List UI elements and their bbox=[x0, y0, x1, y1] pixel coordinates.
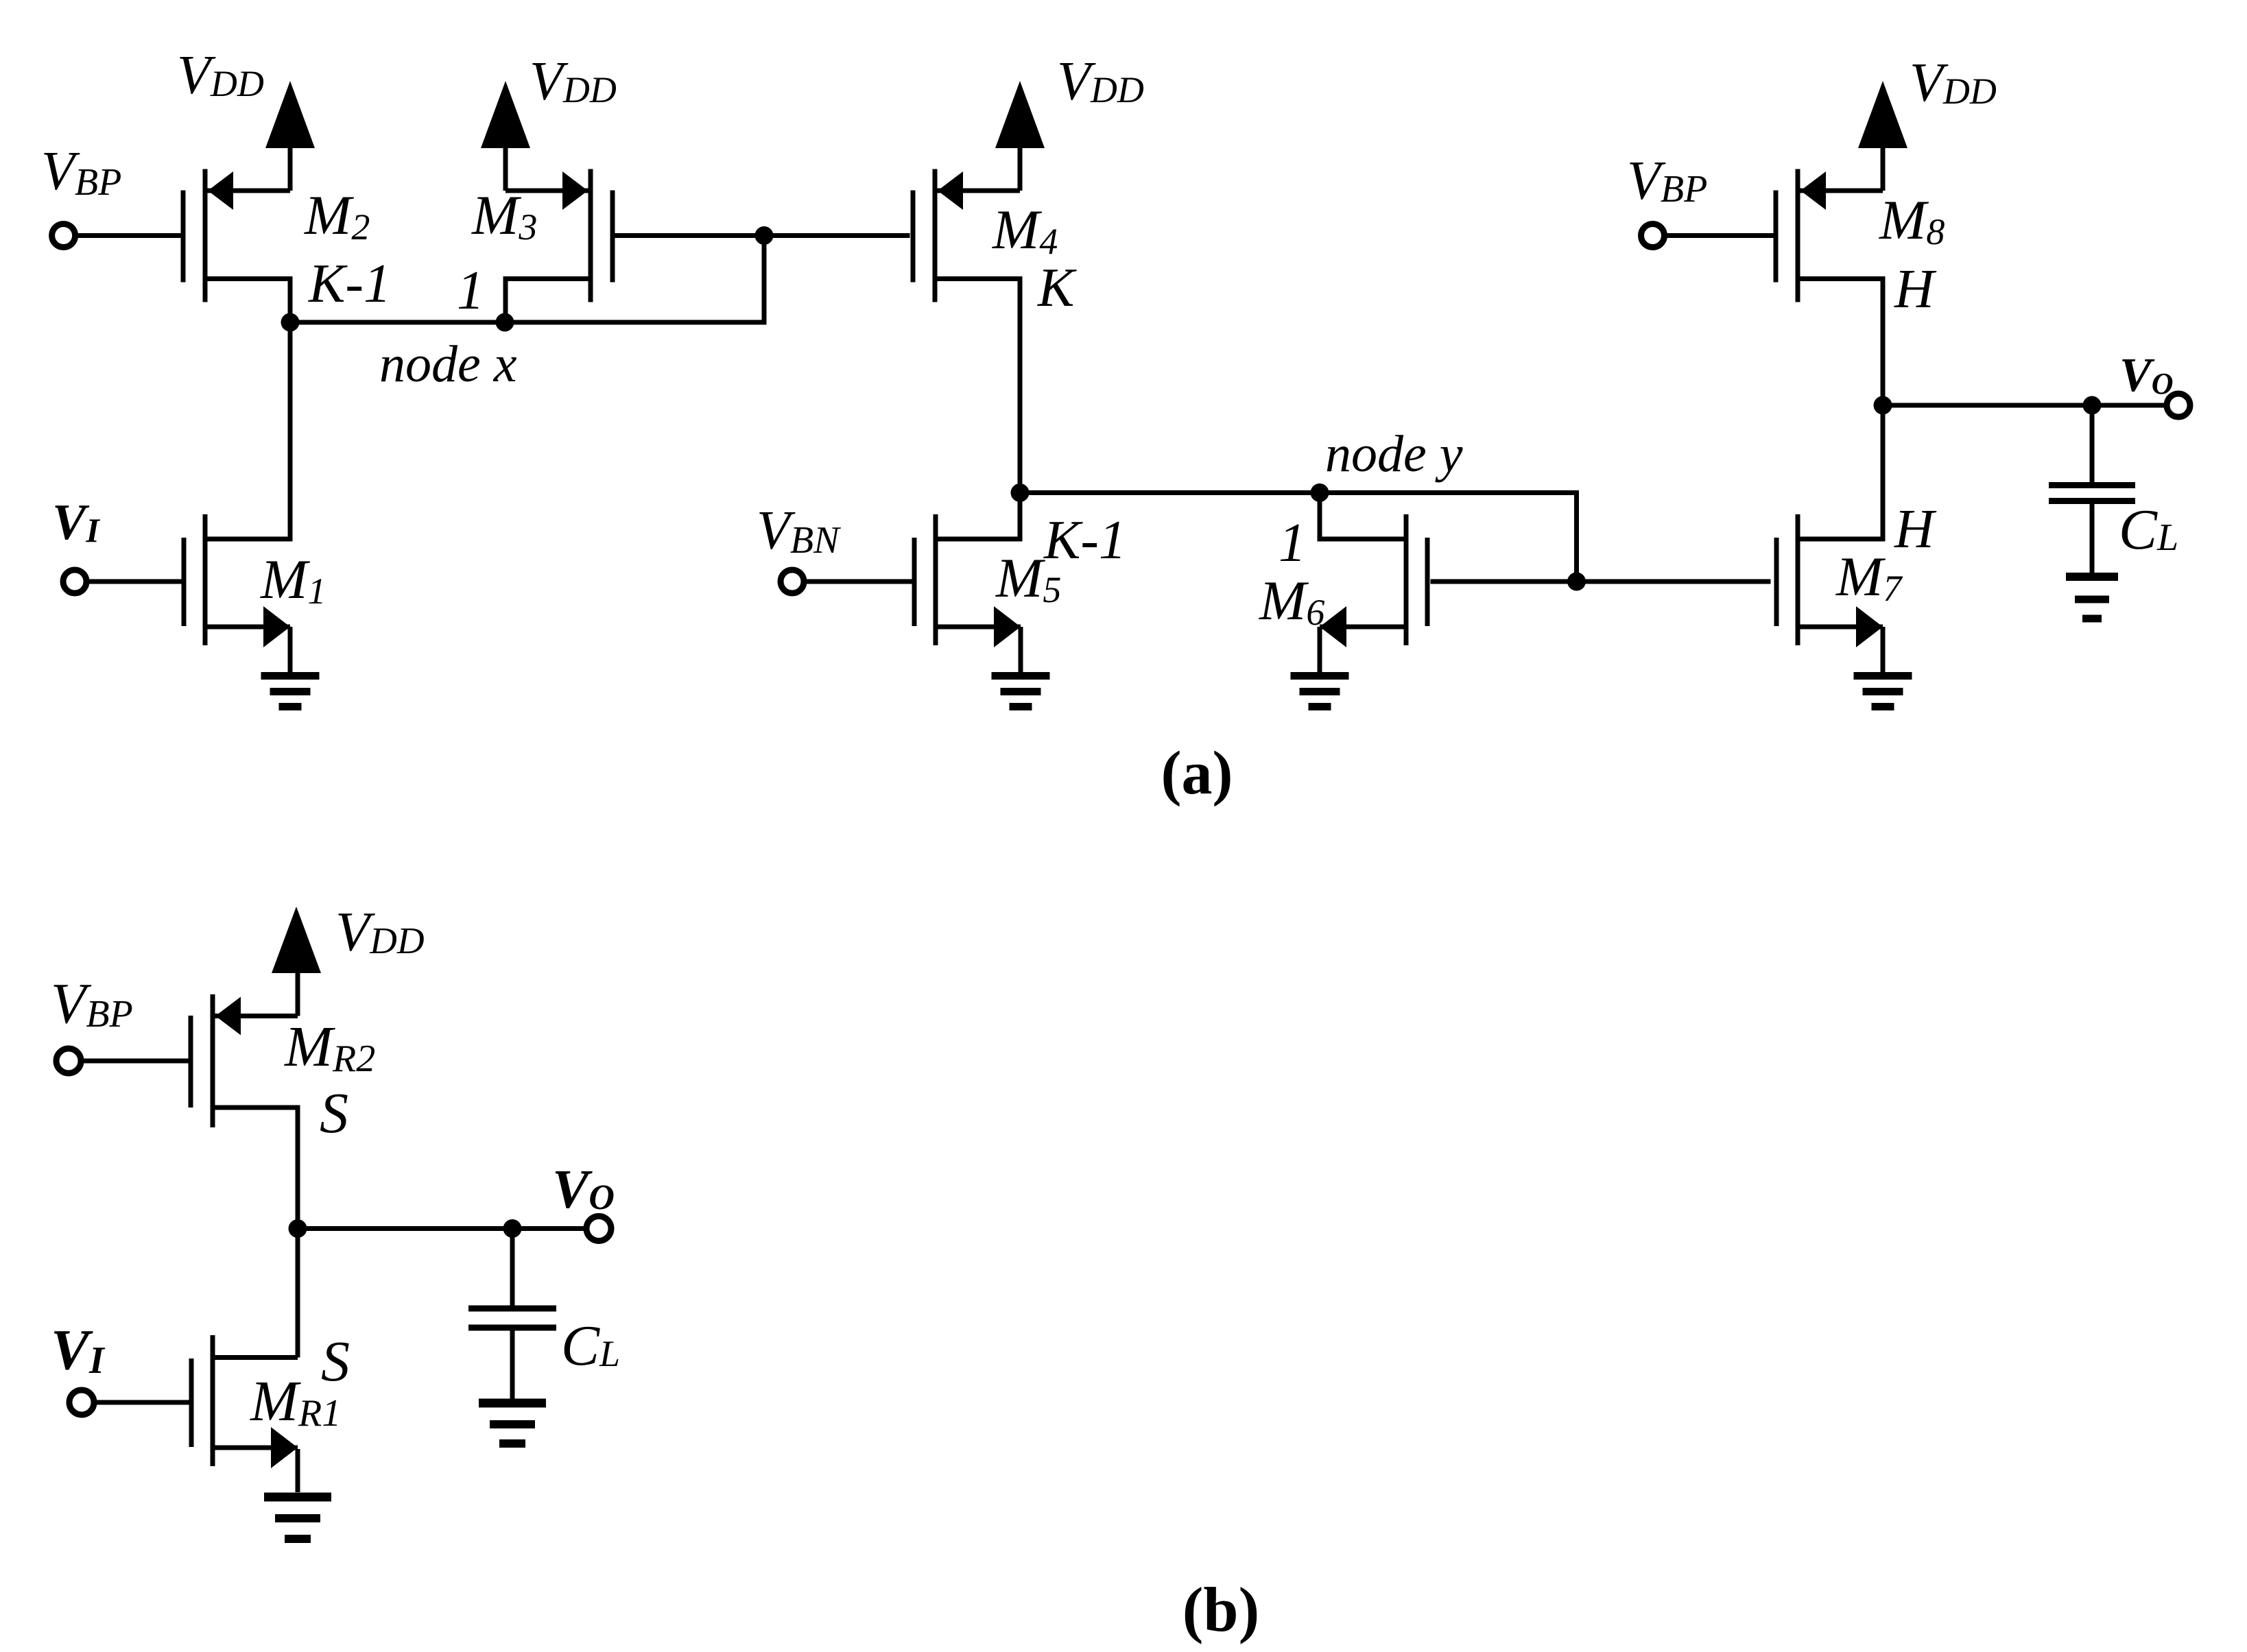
svg-text:K-1: K-1 bbox=[1043, 510, 1126, 571]
svg-text:(b): (b) bbox=[1182, 1575, 1259, 1644]
svg-text:node x: node x bbox=[379, 335, 517, 393]
svg-text:K-1: K-1 bbox=[308, 254, 391, 314]
svg-text:K: K bbox=[1037, 258, 1077, 318]
svg-text:1: 1 bbox=[457, 261, 484, 321]
svg-text:node y: node y bbox=[1325, 425, 1463, 483]
svg-text:1: 1 bbox=[1279, 513, 1306, 573]
svg-text:H: H bbox=[1894, 499, 1937, 560]
svg-text:H: H bbox=[1894, 259, 1937, 320]
svg-text:S: S bbox=[320, 1081, 348, 1145]
svg-text:S: S bbox=[321, 1330, 350, 1393]
svg-text:(a): (a) bbox=[1161, 739, 1233, 807]
